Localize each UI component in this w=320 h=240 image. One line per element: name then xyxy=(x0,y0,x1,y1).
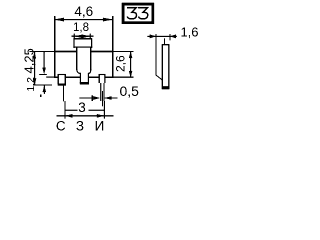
side view case outline xyxy=(162,45,169,89)
svg-text:С: С xyxy=(56,119,66,134)
stray mark below 1,2 xyxy=(40,95,42,97)
dimension line 1,2 upper segment with down arrow xyxy=(44,52,45,68)
side view short vertical above case xyxy=(164,38,165,45)
case neck walls xyxy=(76,47,77,70)
svg-text:4,6: 4,6 xyxy=(74,4,93,19)
side view case bottom thick xyxy=(162,86,169,89)
flange right edge + 4,6 extension xyxy=(112,16,113,78)
dimension line 2,6 vertical with arrows xyxy=(130,52,131,78)
source lead thin line below stub xyxy=(63,86,64,102)
flange bottom edge segments xyxy=(54,77,59,78)
marking digit 3 (second) xyxy=(138,8,148,19)
lead tip line between С and И xyxy=(65,110,78,111)
flange top edge with 4,25 and 2,6 extension lines xyxy=(30,51,55,52)
dimension line 4,25 vertical with arrows xyxy=(34,52,35,85)
case cap outline xyxy=(74,39,92,48)
svg-text:1,8: 1,8 xyxy=(73,22,89,34)
drain lead thin double line xyxy=(100,83,101,101)
dimension line 4,6 xyxy=(54,19,112,20)
extension line 2,6 bottom xyxy=(112,77,133,78)
side view right extension line xyxy=(169,34,170,40)
case cap bottom edge xyxy=(73,47,92,48)
gate stem bottom thick edge xyxy=(80,82,89,84)
svg-text:1,6: 1,6 xyxy=(180,25,198,40)
dimension line 1,2 lower segment with up arrow xyxy=(44,85,45,94)
dimension 3 extension lines xyxy=(64,101,65,119)
drain lead center extension line xyxy=(102,91,103,106)
svg-text:3: 3 xyxy=(78,100,86,115)
dimension line 1,8 with extension ticks xyxy=(72,36,94,37)
extension line at stub top level xyxy=(39,74,47,75)
source lead stub (С) xyxy=(58,75,65,84)
dimension line 0,5 with arrows at drain lead xyxy=(79,97,92,98)
flange left edge + 4,6 extension xyxy=(54,16,55,78)
dimension line 1,6 with outside arrows xyxy=(147,36,177,37)
case funnel taper and gate stem (З) xyxy=(77,69,91,82)
svg-text:З: З xyxy=(76,119,84,134)
extension line at stub bottom level xyxy=(33,85,52,86)
side view flange face line + extension xyxy=(155,34,156,76)
dimension line 3 with arrows xyxy=(57,115,114,116)
drain lead stub (И) xyxy=(99,75,105,84)
svg-text:2,6: 2,6 xyxy=(113,55,127,72)
svg-text:И: И xyxy=(95,119,105,134)
marking digit 3 (first) xyxy=(127,8,137,19)
marking code box 33 xyxy=(123,4,153,23)
side view step diagonal xyxy=(156,75,162,80)
svg-text:0,5: 0,5 xyxy=(119,83,139,99)
